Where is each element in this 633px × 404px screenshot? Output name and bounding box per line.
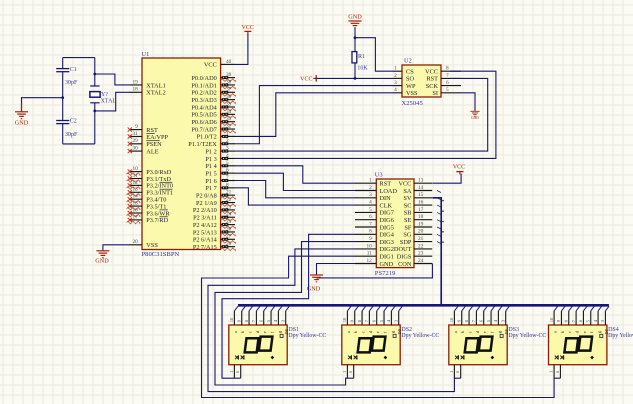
pin 7 DIG5 of U3	[355, 221, 394, 231]
DS4 segment letters	[553, 328, 609, 337]
pin 11 P3.1/TxD of U1	[127, 173, 172, 183]
pin 23 DIGS of U3	[397, 251, 433, 261]
svg-text:e: e	[482, 331, 487, 333]
svg-text:Dpy Yellow-CC: Dpy Yellow-CC	[608, 333, 633, 339]
svg-text:SG: SG	[403, 232, 412, 239]
pin 1 P1.0/T2 of U1	[197, 131, 235, 141]
capacitor C2	[56, 119, 78, 138]
pin 30 ALE of U1	[128, 146, 159, 156]
svg-text:5: 5	[446, 87, 449, 93]
svg-text:18: 18	[418, 214, 424, 220]
pin 15 P3.5/T1 of U1	[127, 201, 167, 211]
node crystal top junction	[93, 73, 96, 76]
wire VSS to ground	[103, 245, 130, 251]
svg-text:8: 8	[446, 66, 449, 72]
svg-text:c: c	[467, 331, 472, 333]
svg-text:PSEN: PSEN	[146, 141, 162, 148]
wire U2 VSS to U1 P1.0	[235, 93, 394, 137]
svg-text:40: 40	[226, 59, 232, 65]
pin 17 P3.7/RD of U1	[127, 214, 169, 224]
svg-text:EA/VPP: EA/VPP	[146, 134, 168, 141]
svg-text:30pF: 30pF	[65, 132, 78, 138]
svg-text:VCC: VCC	[425, 69, 438, 76]
IC U3 body (PS7219 display driver)	[376, 179, 414, 268]
svg-text:1: 1	[369, 178, 372, 184]
svg-text:GND: GND	[380, 261, 394, 268]
pin 20 VSS of U1	[130, 239, 159, 249]
wire XTAL2 branch	[95, 92, 130, 111]
DS1 cathode pins	[229, 365, 241, 379]
svg-text:VSS: VSS	[406, 90, 418, 97]
svg-text:GND: GND	[471, 116, 479, 120]
wire U3 DIG3 to DS2 cathode	[215, 242, 355, 385]
DS1 segment letters	[233, 328, 289, 337]
pin 2 SO of U2	[393, 73, 414, 83]
svg-text:11: 11	[367, 251, 372, 257]
svg-text:12: 12	[367, 258, 373, 264]
wire to GND left	[22, 98, 63, 112]
pin 9 RST of U1	[128, 124, 158, 134]
DS3 segment letters	[453, 328, 509, 337]
pin 6 DIG6 of U3	[355, 214, 394, 224]
display DS1 body (Dpy Yellow-CC)	[229, 325, 287, 365]
DS2 cathode K marks	[348, 355, 357, 359]
pin 22 P2.1/A9 of U1	[196, 197, 236, 207]
pin 16 SC of U3	[404, 200, 433, 210]
DS4 cathode K marks	[555, 355, 564, 359]
power VCC (U1 pin 40)	[242, 25, 254, 34]
U1 part name P80C31SBPN	[142, 251, 180, 258]
svg-text:e: e	[582, 331, 587, 333]
DS4 cathode pins	[549, 365, 561, 379]
pin 5 P1.4 of U1	[205, 160, 235, 170]
pin 13 VCC of U3	[398, 178, 432, 188]
svg-text:30: 30	[133, 146, 139, 152]
svg-text:10: 10	[229, 317, 234, 322]
svg-text:15: 15	[133, 201, 139, 207]
DS3 part name Dpy Yellow-CC	[508, 333, 546, 339]
DS4 designator	[608, 327, 619, 333]
pin 36 P0.3/AD3 of U1	[191, 94, 235, 104]
U2 part name X25045	[402, 100, 424, 107]
pin 16 P3.6/WR of U1	[127, 207, 171, 217]
pin 26 P2.5/A13 of U1	[193, 226, 236, 236]
svg-text:11: 11	[133, 173, 138, 179]
svg-text:2: 2	[394, 73, 397, 79]
svg-text:P2 2/A10: P2 2/A10	[193, 207, 217, 214]
DS3 segment pins	[454, 311, 505, 325]
pin 38 P0.1/AD1 of U1	[191, 79, 235, 89]
svg-text:30pF: 30pF	[65, 80, 78, 86]
DS1 seven-segment glyph	[245, 337, 273, 353]
svg-text:P1 7: P1 7	[205, 185, 216, 192]
pin 6 SCK of U2	[426, 80, 461, 90]
pin 14 SA of U3	[403, 185, 432, 195]
svg-text:DIG2: DIG2	[380, 246, 394, 253]
pin 2 LOAD of U3	[355, 185, 397, 195]
wire crystal left rail top	[62, 58, 64, 69]
svg-text:GND: GND	[348, 14, 362, 21]
pin 10 DIG2 of U3	[355, 243, 394, 253]
wire crystal left rail bottom	[62, 124, 64, 144]
svg-text:P1 4: P1 4	[205, 163, 217, 170]
pin 4 VSS of U2	[393, 87, 418, 97]
svg-text:P2 3/A11: P2 3/A11	[193, 215, 217, 222]
svg-text:23: 23	[418, 251, 424, 257]
svg-text:c: c	[247, 331, 252, 333]
wire VCC rail to U2 SO	[316, 77, 393, 79]
pin 37 P0.2/AD2 of U1	[191, 87, 235, 97]
wire U2 RST to U1 P1.2	[235, 78, 488, 151]
wire crystal right rail bottom	[94, 103, 96, 144]
svg-text:P0.1/AD1: P0.1/AD1	[191, 82, 216, 89]
wire R1 junction to U2 CS	[355, 38, 394, 71]
svg-text:SDP: SDP	[400, 239, 412, 246]
pin 3 WP of U2	[393, 80, 416, 90]
power VCC (U3 pin 13)	[453, 165, 465, 175]
svg-text:P3.7/RD: P3.7/RD	[146, 217, 168, 224]
pin 4 P1.3 of U1	[205, 153, 235, 163]
svg-text:SF: SF	[404, 224, 412, 231]
svg-text:6: 6	[369, 214, 372, 220]
svg-text:P2 7/A15: P2 7/A15	[193, 244, 217, 251]
svg-text:P0.2/AD2: P0.2/AD2	[191, 90, 216, 97]
wire crystal right rail top	[94, 58, 96, 86]
wire GND to R1	[354, 28, 356, 52]
pin 2 P1.1/T2EX of U1	[188, 138, 235, 148]
DS3 decimal point	[491, 356, 495, 360]
wire XTAL1 branch	[95, 74, 130, 85]
DS2 cathode pins	[342, 365, 354, 379]
svg-text:VCC: VCC	[242, 25, 254, 31]
pin 27 P2.6/A14 of U1	[193, 234, 236, 244]
svg-text:CON: CON	[398, 261, 412, 268]
svg-text:U1: U1	[142, 51, 150, 58]
svg-text:7: 7	[446, 73, 449, 79]
svg-text:DOUT: DOUT	[394, 246, 412, 253]
DS1 cathode K marks	[235, 355, 244, 359]
svg-text:4: 4	[394, 87, 397, 93]
bus entry dots	[442, 200, 444, 243]
svg-text:DP: DP	[604, 328, 609, 334]
svg-text:R1: R1	[358, 54, 365, 60]
svg-text:DIG4: DIG4	[380, 232, 395, 239]
svg-text:DP: DP	[397, 328, 402, 334]
svg-text:VCC: VCC	[300, 77, 312, 83]
svg-text:DIN: DIN	[380, 195, 392, 202]
DS1 designator	[288, 327, 299, 333]
svg-text:9: 9	[135, 124, 138, 130]
pin 22 DOUT of U3	[394, 243, 432, 253]
svg-text:P0.3/AD3: P0.3/AD3	[191, 97, 216, 104]
pin 24 CON of U3	[398, 258, 432, 268]
svg-text:P0.4/AD4: P0.4/AD4	[191, 104, 217, 111]
IC U2 body (X25045 eeprom)	[402, 65, 441, 97]
DS1 segment pin numbers	[229, 317, 285, 322]
pin 6 P1.5 of U1	[205, 168, 235, 178]
wire segment bus riser	[432, 198, 441, 305]
svg-text:U2: U2	[404, 58, 412, 65]
pin 12 GND of U3	[355, 258, 394, 268]
svg-text:VCC: VCC	[204, 62, 217, 69]
svg-text:CLK: CLK	[380, 202, 393, 209]
IC U1 body (P80C31SBPN microcontroller)	[142, 58, 221, 250]
node R1 top junction	[354, 36, 357, 39]
svg-text:3: 3	[394, 80, 397, 86]
pin 28 P2.7/A15 of U1	[193, 241, 236, 251]
DS2 bus entries	[347, 306, 402, 311]
pin 3 P1.2 of U1	[205, 146, 235, 156]
svg-text:P1 3: P1 3	[205, 156, 216, 163]
svg-text:17: 17	[133, 214, 139, 220]
svg-text:Dpy Yellow-CC: Dpy Yellow-CC	[288, 333, 326, 339]
wire U3 VCC pin up	[432, 174, 461, 184]
svg-text:a: a	[233, 331, 238, 333]
pin 33 P0.6/AD6 of U1	[191, 116, 235, 126]
node GND branch junction	[61, 96, 64, 99]
pin 19 SF of U3	[404, 221, 432, 231]
wire crystal bottom link	[63, 143, 95, 145]
DS1 bus entries	[234, 306, 289, 311]
pin 7 RST of U2	[426, 73, 461, 83]
svg-text:DIG5: DIG5	[380, 224, 394, 231]
DS1 segment pins	[234, 311, 285, 325]
power VCC (left of U2)	[300, 75, 316, 82]
svg-text:WP: WP	[406, 83, 416, 90]
DS3 cathode pins	[449, 365, 461, 379]
pin 18 SE of U3	[404, 214, 432, 224]
svg-text:P2 1/A9: P2 1/A9	[196, 200, 217, 207]
DS2 part name Dpy Yellow-CC	[401, 333, 439, 339]
svg-text:SCK: SCK	[426, 83, 439, 90]
pin 1 CS of U2	[393, 66, 414, 76]
svg-text:SV: SV	[403, 195, 412, 202]
wire U1 P1.4 to U3 RST	[235, 166, 356, 183]
wire crystal top link	[63, 57, 95, 59]
svg-text:10: 10	[342, 317, 347, 322]
node crystal bottom junction	[93, 110, 96, 113]
svg-text:Dpy Yellow-CC: Dpy Yellow-CC	[508, 333, 546, 339]
svg-text:SO: SO	[406, 76, 415, 83]
svg-text:DIG7: DIG7	[380, 210, 394, 217]
svg-text:P1.1/T2EX: P1.1/T2EX	[188, 141, 217, 148]
svg-text:C1: C1	[70, 67, 77, 73]
DS2 designator	[401, 327, 412, 333]
pin 1 RST of U3	[355, 178, 391, 188]
svg-text:P1 5: P1 5	[205, 170, 216, 177]
U3 part name PS7219	[375, 270, 396, 277]
svg-text:19: 19	[133, 79, 139, 85]
svg-text:Y?: Y?	[101, 92, 108, 98]
DS2 decimal point	[384, 356, 388, 360]
U2 designator	[404, 58, 412, 65]
svg-text:C2: C2	[70, 119, 77, 125]
svg-text:LOAD: LOAD	[380, 188, 398, 195]
pin 13 P3.3/INT1 of U1	[127, 187, 174, 197]
DS1 part name Dpy Yellow-CC	[288, 333, 326, 339]
wire U3 DIG2 to DS3 cathode	[208, 249, 461, 392]
svg-text:RST: RST	[380, 181, 392, 188]
pin 29 PSEN of U1	[128, 138, 162, 148]
svg-text:XTAL: XTAL	[101, 98, 117, 104]
pin 7 P1.6 of U1	[205, 175, 235, 185]
pin 25 P2.4/A12 of U1	[193, 219, 236, 229]
ground (crystal)	[15, 103, 29, 127]
svg-text:DIG3: DIG3	[380, 239, 394, 246]
svg-text:P2 4/A12: P2 4/A12	[193, 222, 217, 229]
pin 11 DIG1 of U3	[355, 251, 394, 261]
pin 12 P3.2/INT0 of U1	[127, 180, 174, 190]
DS3 segment pin numbers	[449, 317, 505, 322]
svg-text:P0.6/AD6: P0.6/AD6	[191, 119, 216, 126]
svg-text:XTAL2: XTAL2	[146, 90, 165, 97]
crystal Y? XTAL	[90, 86, 117, 104]
svg-text:P1.0/T2: P1.0/T2	[197, 134, 217, 141]
pin 9 DIG3 of U3	[355, 236, 394, 246]
wire R1 bottom	[354, 63, 356, 79]
svg-text:P80C31SBPN: P80C31SBPN	[142, 251, 180, 258]
pin 3 DIN of U3	[355, 192, 391, 202]
svg-text:P1 2: P1 2	[205, 148, 216, 155]
pin 8 VCC of U2	[425, 66, 461, 76]
pin 5 SI of U2	[432, 87, 461, 97]
svg-text:SI: SI	[432, 90, 438, 97]
bus entries U3 segment pins	[437, 191, 441, 244]
pin 18 XTAL2 of U1	[130, 87, 166, 97]
svg-text:13: 13	[133, 187, 139, 193]
pin 40 VCC of U1	[204, 59, 235, 69]
svg-text:c: c	[567, 331, 572, 333]
DS4 segment pin numbers	[549, 317, 605, 322]
wire VCC to U1 pin 40	[235, 34, 248, 65]
svg-text:20: 20	[418, 229, 424, 235]
pin 10 P3.0/RxD of U1	[127, 166, 172, 176]
svg-text:SA: SA	[403, 188, 412, 195]
svg-text:GND: GND	[15, 120, 29, 127]
svg-text:15: 15	[418, 192, 424, 198]
DS3 seven-segment glyph	[465, 337, 493, 353]
svg-text:13: 13	[418, 178, 424, 184]
svg-text:14: 14	[418, 185, 424, 191]
svg-text:16: 16	[133, 207, 139, 213]
svg-text:P0.7/AD7: P0.7/AD7	[191, 126, 216, 133]
pin 15 SV of U3	[403, 192, 432, 202]
svg-text:P2 6/A14: P2 6/A14	[193, 237, 218, 244]
svg-text:CS: CS	[406, 69, 414, 76]
svg-text:ALE: ALE	[146, 148, 158, 155]
svg-text:12: 12	[133, 180, 139, 186]
wire U2 WP to U1 P1.1	[235, 86, 394, 144]
svg-text:SB: SB	[404, 210, 412, 217]
svg-text:e: e	[262, 331, 267, 333]
svg-text:19: 19	[418, 221, 424, 227]
svg-text:14: 14	[133, 194, 139, 200]
DS3 bus entries	[454, 306, 509, 311]
DS2 segment pin numbers	[342, 317, 398, 322]
svg-text:6: 6	[446, 80, 449, 86]
DS3 designator	[508, 327, 519, 333]
pin 19 XTAL1 of U1	[130, 79, 166, 89]
ground (R1 top)	[348, 14, 362, 28]
pin 8 P1.7 of U1	[205, 182, 235, 192]
svg-text:2: 2	[369, 185, 372, 191]
DS2 seven-segment glyph	[358, 337, 386, 353]
pin 5 DIG7 of U3	[355, 207, 394, 217]
wire U3 DIG1 to DS4 cathode	[202, 256, 561, 397]
svg-text:RST: RST	[426, 76, 438, 83]
wire U1 P1.6 to U3 DIN	[235, 181, 356, 198]
ground (U1 VSS)	[95, 251, 109, 264]
DS2 segment letters	[346, 328, 402, 337]
wire U1 P1.5 to U3 LOAD	[235, 173, 356, 190]
svg-text:a: a	[553, 331, 558, 333]
pin 31 EA/VPP of U1	[128, 131, 169, 141]
pin 21 SDP of U3	[400, 236, 432, 246]
svg-text:c: c	[360, 331, 365, 333]
ground (U3)	[307, 275, 323, 292]
pin 35 P0.4/AD4 of U1	[191, 101, 235, 111]
pin 4 CLK of U3	[355, 200, 393, 210]
svg-text:29: 29	[133, 138, 139, 144]
svg-text:SC: SC	[404, 202, 412, 209]
wire U2 VCC pin to U1 P1.3	[235, 71, 496, 158]
pin 24 P2.3/A11 of U1	[193, 212, 235, 222]
svg-text:VCC: VCC	[398, 181, 411, 188]
pin 20 SG of U3	[403, 229, 432, 239]
pin 8 DIG4 of U3	[355, 229, 395, 239]
svg-text:10: 10	[549, 317, 554, 322]
DS1 decimal point	[271, 356, 275, 360]
svg-text:DIG1: DIG1	[380, 254, 394, 261]
svg-text:DP: DP	[504, 328, 509, 334]
svg-text:GND: GND	[95, 257, 109, 264]
svg-text:1: 1	[394, 66, 397, 72]
display DS4 body (Dpy Yellow-CC)	[549, 325, 607, 365]
svg-text:21: 21	[418, 236, 424, 242]
svg-text:SE: SE	[404, 217, 412, 224]
pin 21 P2.0/A8 of U1	[196, 190, 236, 200]
svg-text:7: 7	[369, 221, 372, 227]
pin 39 P0.0/AD0 of U1	[191, 72, 235, 82]
resistor R1	[352, 52, 368, 72]
svg-text:8: 8	[369, 229, 372, 235]
display DS2 body (Dpy Yellow-CC)	[342, 325, 400, 365]
svg-text:XTAL1: XTAL1	[146, 82, 165, 89]
bus segment bus	[238, 304, 609, 307]
svg-text:16: 16	[418, 200, 424, 206]
wire U1 P1.7 to U3 CLK	[235, 188, 356, 205]
svg-text:3: 3	[369, 192, 372, 198]
svg-text:P2 0/A8: P2 0/A8	[196, 193, 217, 200]
DS2 segment pins	[347, 311, 398, 325]
pin 14 P3.4/T0 of U1	[127, 194, 167, 204]
svg-text:e: e	[375, 331, 380, 333]
svg-text:DP: DP	[284, 328, 289, 334]
svg-text:9: 9	[369, 236, 372, 242]
pin 34 P0.5/AD5 of U1	[191, 109, 235, 119]
svg-text:24: 24	[418, 258, 424, 264]
wire U3 DIG4 to DS1 cathode	[222, 234, 355, 378]
U1 designator	[142, 51, 150, 58]
capacitor C1	[56, 67, 78, 86]
pin 32 P0.7/AD7 of U1	[191, 123, 235, 133]
svg-text:P2 5/A13: P2 5/A13	[193, 229, 217, 236]
wire U3 GND pin to ground	[317, 264, 356, 275]
svg-text:X25045: X25045	[402, 100, 424, 107]
svg-text:VCC: VCC	[453, 165, 465, 171]
svg-text:a: a	[453, 331, 458, 333]
svg-text:22: 22	[418, 243, 424, 249]
